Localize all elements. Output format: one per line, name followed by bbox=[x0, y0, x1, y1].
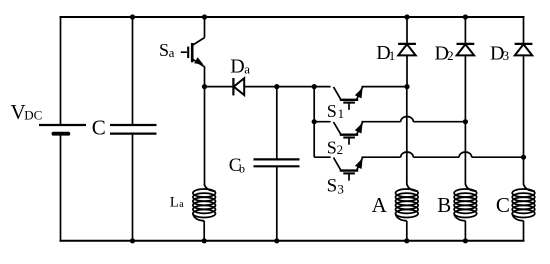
svg-text:DC: DC bbox=[24, 108, 42, 123]
label S3 bbox=[327, 176, 344, 197]
wire phase B upper bbox=[464, 17, 466, 44]
svg-text:L: L bbox=[170, 194, 179, 210]
inductor phase winding C bbox=[512, 184, 535, 221]
wire bottom rail bbox=[60, 240, 525, 242]
wire coil A to bottom rail bbox=[406, 221, 408, 241]
node bottom rail / La bbox=[202, 238, 207, 243]
transistor S3 (IGBT) bbox=[334, 158, 363, 181]
node top rail / cap C bbox=[130, 14, 135, 19]
node phase A / S1 junction bbox=[404, 84, 409, 89]
label Cb bbox=[229, 155, 245, 176]
wire hop S3 over phase A line bbox=[401, 152, 414, 157]
label C bbox=[92, 115, 106, 139]
wire S2 emitter segment bbox=[362, 121, 401, 123]
svg-text:B: B bbox=[437, 193, 451, 217]
diode D3 bbox=[515, 44, 533, 56]
wire S3 between hops bbox=[413, 156, 459, 158]
wire coil B to bottom rail bbox=[464, 221, 466, 241]
svg-text:C: C bbox=[92, 115, 106, 139]
label D2 bbox=[435, 42, 454, 64]
wire C_b branch upper bbox=[276, 87, 278, 160]
svg-text:S: S bbox=[327, 138, 337, 158]
node bottom rail / coil B bbox=[463, 238, 468, 243]
svg-text:A: A bbox=[372, 193, 388, 217]
battery VDC bbox=[39, 125, 86, 134]
wire S2 to phase B bbox=[413, 121, 465, 123]
label A bbox=[372, 193, 388, 217]
wire Da line right bbox=[244, 86, 330, 88]
node bottom rail / cap C bbox=[130, 238, 135, 243]
node phase B / S2 junction bbox=[463, 119, 468, 124]
label La bbox=[170, 194, 184, 210]
svg-text:a: a bbox=[169, 45, 175, 60]
wire hop S3 over phase B line bbox=[459, 152, 472, 157]
node top rail / phase B bbox=[463, 14, 468, 19]
svg-text:1: 1 bbox=[389, 48, 396, 63]
svg-text:2: 2 bbox=[447, 48, 454, 63]
label Sa bbox=[159, 40, 175, 60]
capacitor C bbox=[110, 125, 157, 134]
svg-text:a: a bbox=[179, 199, 184, 210]
wire phase C to coil bbox=[523, 157, 525, 184]
wire Sa collector from top rail bbox=[204, 17, 206, 38]
wire phase A mid bbox=[406, 55, 408, 86]
wire phase B to coil bbox=[464, 122, 466, 185]
node top rail / phase A bbox=[404, 14, 409, 19]
wire phase B mid bbox=[464, 55, 466, 121]
capacitor Cb bbox=[254, 159, 300, 166]
wire phase C upper bbox=[523, 17, 525, 44]
wire S2 feed bbox=[314, 121, 330, 123]
wire S3 feed bbox=[314, 156, 330, 158]
label Da bbox=[230, 55, 250, 77]
svg-text:C: C bbox=[496, 193, 510, 217]
wire S1 emitter to phase A bbox=[362, 86, 408, 88]
svg-text:a: a bbox=[244, 61, 250, 76]
svg-text:2: 2 bbox=[337, 142, 344, 157]
label D1 bbox=[376, 42, 395, 64]
node top rail / Sa bbox=[202, 14, 207, 19]
wire left branch upper (battery +) bbox=[60, 16, 62, 125]
wire cap C branch upper bbox=[132, 17, 134, 125]
inductor La bbox=[193, 184, 216, 221]
svg-text:b: b bbox=[239, 162, 245, 176]
wire Da line left bbox=[205, 86, 234, 88]
wire coil C to bottom rail bbox=[523, 221, 525, 241]
node bus tap at S1 row bbox=[312, 84, 317, 89]
wire hop S2 over phase A line bbox=[401, 117, 414, 122]
svg-text:3: 3 bbox=[337, 181, 344, 196]
label C phase bbox=[496, 193, 510, 217]
svg-text:1: 1 bbox=[338, 106, 345, 121]
node bottom rail / Cb bbox=[274, 238, 279, 243]
wire phase A to coil bbox=[406, 87, 408, 185]
wire phase C mid bbox=[523, 55, 525, 157]
node phase C / S3 junction bbox=[521, 155, 526, 160]
transistor S1 (IGBT) bbox=[334, 87, 363, 110]
node C_b tap bbox=[274, 84, 279, 89]
wire Sa emitter down to node bbox=[204, 66, 206, 86]
diode D1 bbox=[398, 44, 416, 56]
label B bbox=[437, 193, 451, 217]
node bus tap at S2 row bbox=[312, 119, 317, 124]
diode Da bbox=[233, 78, 244, 95]
transistor S2 (IGBT) bbox=[334, 122, 363, 145]
wire phase A upper bbox=[406, 17, 408, 44]
wire left branch lower (battery -) bbox=[60, 134, 62, 242]
svg-text:S: S bbox=[327, 176, 338, 197]
transistor Sa (IGBT) bbox=[181, 38, 205, 67]
wire bus vertical bbox=[313, 87, 315, 158]
svg-text:S: S bbox=[327, 101, 337, 121]
wire S3 emitter segment bbox=[362, 156, 401, 158]
svg-text:S: S bbox=[159, 40, 169, 60]
label S2 bbox=[327, 138, 343, 158]
label VDC bbox=[11, 100, 43, 124]
wire La to bottom rail bbox=[203, 221, 205, 241]
wire C_b branch lower bbox=[276, 166, 278, 241]
label D3 bbox=[490, 42, 509, 64]
wire S3 to phase C bbox=[472, 156, 524, 158]
inductor phase winding A bbox=[396, 184, 419, 221]
wire cap C branch lower bbox=[132, 134, 134, 241]
wire top rail bbox=[60, 16, 525, 18]
svg-text:3: 3 bbox=[503, 48, 510, 63]
diode D2 bbox=[457, 44, 475, 56]
svg-text:D: D bbox=[230, 55, 244, 77]
node bottom rail / coil A bbox=[404, 238, 409, 243]
inductor phase winding B bbox=[454, 184, 477, 221]
node Sa emitter / D_a anode junction bbox=[202, 84, 207, 89]
label S1 bbox=[327, 101, 344, 121]
wire La from node bbox=[204, 87, 206, 185]
